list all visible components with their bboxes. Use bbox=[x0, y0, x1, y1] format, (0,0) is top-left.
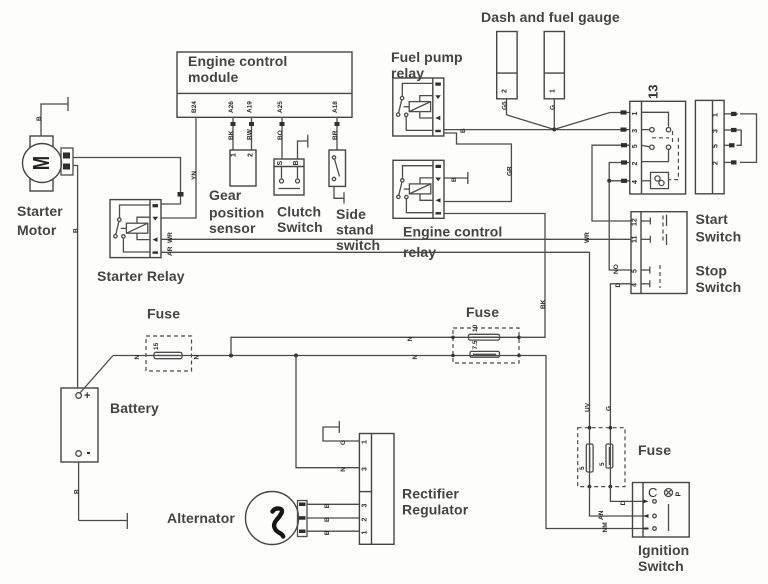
dash gauge G2 bbox=[544, 32, 564, 99]
svg-text:B: B bbox=[451, 177, 458, 182]
svg-text:Starter Relay: Starter Relay bbox=[97, 268, 185, 284]
indicator lamp inside connector 13 bbox=[642, 172, 669, 188]
svg-text:B: B bbox=[460, 128, 467, 133]
ground (engine control relay pin 2 stub) bbox=[444, 172, 468, 184]
pin label (connector pin 2 wire) bbox=[621, 128, 627, 132]
svg-text:B: B bbox=[36, 116, 43, 121]
svg-text:Engine control: Engine control bbox=[403, 224, 502, 240]
svg-text:Switch: Switch bbox=[638, 558, 684, 574]
svg-text:G5: G5 bbox=[502, 101, 509, 110]
main fuse F1 (battery fuse) bbox=[146, 336, 192, 371]
wire B (battery - down) bbox=[78, 462, 80, 521]
svg-text:1: 1 bbox=[231, 153, 238, 157]
fuse box F2/F3 bbox=[451, 324, 521, 363]
svg-text:A26: A26 bbox=[228, 101, 235, 113]
clutch switch S2 bbox=[274, 159, 304, 195]
svg-text:Engine control: Engine control bbox=[188, 53, 287, 69]
wire G6 (dash gauge down to junction) bbox=[553, 99, 555, 130]
svg-text:4: 4 bbox=[632, 283, 639, 287]
wire NM (lower fuse to ignition switch pin 3) bbox=[519, 356, 646, 529]
svg-text:B: B bbox=[293, 160, 300, 165]
svg-text:10: 10 bbox=[472, 324, 479, 332]
node (gauge wires junction) bbox=[552, 127, 556, 131]
svg-text:sensor: sensor bbox=[209, 220, 256, 236]
svg-text:A18: A18 bbox=[332, 101, 339, 113]
svg-text:BK: BK bbox=[540, 299, 547, 309]
svg-text:D: D bbox=[620, 500, 627, 505]
svg-text:BR: BR bbox=[332, 130, 339, 140]
wire B (fuel pump relay pin 4 to gauges junction and connector pin 2) bbox=[444, 129, 630, 131]
svg-text:5: 5 bbox=[599, 462, 606, 466]
svg-text:position: position bbox=[209, 205, 264, 221]
svg-text:3: 3 bbox=[713, 129, 720, 133]
wire WR (starter relay pin 3 to start switch pin 11) bbox=[161, 238, 631, 240]
ground (rectifier regulator pin 1) bbox=[323, 421, 359, 441]
svg-text:Starter: Starter bbox=[17, 203, 63, 219]
wire BW (ECM A19 to gear position sensor pin 2) bbox=[249, 117, 254, 150]
stop switch S5 contacts bbox=[641, 265, 660, 288]
svg-text:1: 1 bbox=[362, 440, 369, 444]
engine control relay K3 bbox=[393, 160, 444, 218]
wire B (starter motor to battery +) bbox=[73, 166, 78, 389]
svg-text:stand: stand bbox=[336, 222, 374, 238]
ground (battery negative) bbox=[79, 513, 128, 529]
fuel pump relay K2 bbox=[393, 78, 444, 136]
node (junction at x609) bbox=[607, 179, 611, 183]
svg-text:5: 5 bbox=[579, 466, 586, 470]
gear position sensor B1 bbox=[230, 150, 256, 186]
svg-text:B: B bbox=[324, 530, 331, 535]
svg-text:3: 3 bbox=[362, 504, 369, 508]
svg-text:Gear: Gear bbox=[209, 187, 242, 203]
svg-text:NO: NO bbox=[613, 264, 620, 274]
wire (alternator phase 2) bbox=[307, 517, 359, 519]
svg-text:Alternator: Alternator bbox=[167, 510, 235, 526]
wire (battery + to fuse wire) bbox=[80, 356, 114, 394]
svg-text:N: N bbox=[340, 467, 347, 472]
svg-text:1: 1 bbox=[362, 531, 369, 535]
svg-text:G: G bbox=[549, 105, 556, 110]
svg-text:A25: A25 bbox=[277, 101, 284, 113]
engine control module U1 bbox=[177, 52, 352, 117]
start switch S4 contacts bbox=[641, 215, 667, 246]
rectifier regulator U2 bbox=[359, 434, 394, 545]
connector (starter motor terminals) bbox=[61, 148, 73, 175]
svg-text:Side: Side bbox=[336, 206, 366, 222]
wire N (branch up to upper fuse) bbox=[231, 337, 453, 355]
svg-text:Fuel pump: Fuel pump bbox=[391, 49, 463, 65]
svg-text:N: N bbox=[412, 355, 419, 360]
svg-text:2: 2 bbox=[713, 161, 720, 165]
starter motor M1 bbox=[23, 136, 62, 191]
svg-text:3: 3 bbox=[362, 467, 369, 471]
svg-text:N: N bbox=[194, 355, 201, 360]
svg-text:2: 2 bbox=[502, 89, 509, 93]
wire N (branch down to rectifier regulator) bbox=[296, 356, 359, 468]
svg-text:Switch: Switch bbox=[696, 229, 742, 245]
svg-text:Fuse: Fuse bbox=[466, 304, 499, 320]
wire N (battery fuse feed) bbox=[113, 355, 453, 357]
svg-text:relay: relay bbox=[391, 65, 424, 81]
pin label (13 pin 3) bbox=[621, 143, 627, 147]
pin label (13 pin 4) bbox=[621, 160, 627, 164]
svg-text:3: 3 bbox=[632, 129, 639, 133]
svg-text:AN: AN bbox=[598, 510, 605, 520]
svg-text:Dash and fuel gauge: Dash and fuel gauge bbox=[481, 9, 620, 25]
wire (alternator phase 1) bbox=[307, 503, 359, 505]
ground (side stand switch) bbox=[334, 186, 344, 203]
svg-text:5: 5 bbox=[713, 144, 720, 148]
svg-text:B: B bbox=[324, 517, 331, 522]
svg-text:1: 1 bbox=[632, 112, 639, 116]
node (branch to upper fuse) bbox=[229, 354, 233, 358]
side stand switch S3 bbox=[329, 150, 346, 186]
svg-text:B: B bbox=[74, 489, 81, 494]
wire AN (left fuse to ignition switch pin 2) bbox=[590, 487, 647, 516]
svg-text:P: P bbox=[676, 492, 683, 497]
svg-text:BO: BO bbox=[277, 130, 284, 140]
svg-text:5: 5 bbox=[632, 144, 639, 148]
wire GR (fuel pump relay pin 4 to engine control relay pin 3) bbox=[444, 133, 511, 202]
svg-text:Fuse: Fuse bbox=[638, 442, 671, 458]
svg-text:module: module bbox=[188, 69, 238, 85]
svg-text:WR: WR bbox=[584, 232, 591, 243]
svg-text:12: 12 bbox=[632, 218, 639, 226]
svg-text:M: M bbox=[29, 156, 54, 170]
svg-text:Fuse: Fuse bbox=[147, 306, 180, 322]
fuse box F4/F5 (ignition fuses) bbox=[578, 426, 625, 489]
wire (connector J2 pin 2 to pin 3 bridge) bbox=[724, 128, 741, 147]
svg-text:2: 2 bbox=[362, 518, 369, 522]
svg-text:Clutch: Clutch bbox=[277, 204, 321, 220]
svg-text:G: G bbox=[605, 406, 612, 411]
svg-text:Battery: Battery bbox=[110, 400, 159, 416]
svg-text:S: S bbox=[277, 161, 284, 166]
svg-text:Motor: Motor bbox=[17, 222, 57, 238]
svg-text:B: B bbox=[324, 503, 331, 508]
connector block 13 (J13) bbox=[630, 101, 686, 194]
wire BK (ECM A26 to gear position sensor pin 1) bbox=[231, 117, 236, 150]
svg-text:13: 13 bbox=[646, 85, 661, 99]
svg-text:1: 1 bbox=[713, 113, 720, 117]
svg-text:UV: UV bbox=[585, 402, 592, 412]
svg-text:4: 4 bbox=[632, 180, 639, 184]
svg-text:NM: NM bbox=[602, 522, 609, 532]
svg-text:B: B bbox=[73, 228, 80, 233]
pin label (13 pin 5) bbox=[621, 179, 627, 183]
svg-text:GR: GR bbox=[506, 166, 513, 176]
svg-text:BW: BW bbox=[247, 128, 254, 140]
svg-text:15: 15 bbox=[153, 342, 160, 350]
svg-text:C: C bbox=[648, 485, 657, 500]
fuel gauge G1 bbox=[497, 32, 517, 99]
svg-text:AR: AR bbox=[167, 246, 174, 256]
start/stop switch block bbox=[631, 212, 687, 294]
wire (connector 13 pin 3 to start switch pin 12) bbox=[592, 145, 631, 221]
svg-text:1: 1 bbox=[550, 89, 557, 93]
svg-text:BK: BK bbox=[228, 130, 235, 140]
alternator G3 bbox=[246, 492, 299, 545]
wire BR (ECM A18 to side stand switch) bbox=[335, 117, 340, 150]
starter relay K1 bbox=[110, 200, 161, 258]
svg-text:D: D bbox=[615, 283, 622, 288]
connector block J2 bbox=[695, 100, 724, 193]
svg-text:N: N bbox=[134, 355, 141, 360]
wire D (right fuse to ignition switch pin 1) bbox=[610, 487, 646, 502]
svg-text:WR: WR bbox=[167, 232, 174, 243]
wire (starter motor to starter relay pin 1) bbox=[73, 158, 184, 205]
svg-text:11: 11 bbox=[632, 235, 639, 243]
wire (connector 13 pin 5 joins) bbox=[609, 180, 630, 182]
svg-text:2: 2 bbox=[632, 162, 639, 166]
svg-text:+: + bbox=[84, 390, 90, 402]
wire (alternator phase 3) bbox=[307, 530, 359, 532]
wire AR (starter relay pin 4 to fuse and ignition switch) bbox=[161, 252, 590, 427]
wire YN (ECM pin B24 to starter relay pin 2) bbox=[161, 117, 196, 218]
wire (connector 13 pin 4 to stop switch pin 5) bbox=[609, 163, 631, 271]
connector (alternator terminals) bbox=[298, 501, 308, 537]
ground (clutch switch) bbox=[298, 135, 308, 159]
wire (connector J2 pin 1 to pin 4 bridge) bbox=[724, 112, 756, 165]
wire BK (upper fuse to engine control relay pin 4) bbox=[444, 214, 545, 338]
svg-text:B24: B24 bbox=[191, 101, 198, 113]
svg-text:2: 2 bbox=[248, 153, 255, 157]
svg-text:relay: relay bbox=[403, 244, 436, 260]
wire BO (ECM A25 to clutch switch) bbox=[280, 117, 285, 159]
pin label (connector pin 1 wire) bbox=[621, 110, 627, 114]
svg-text:Start: Start bbox=[696, 211, 729, 227]
svg-text:YN: YN bbox=[191, 171, 198, 180]
svg-text:N: N bbox=[407, 336, 414, 341]
svg-text:Switch: Switch bbox=[277, 219, 323, 235]
svg-text:A19: A19 bbox=[247, 101, 254, 113]
wire G5 (fuel gauge to junction) bbox=[507, 99, 555, 130]
node (branch down to rectifier) bbox=[294, 354, 298, 358]
wire D (stop switch pin 4 to fuse to ignition switch) bbox=[610, 284, 631, 428]
switch contacts inside connector 13 bbox=[642, 112, 679, 179]
svg-text:G: G bbox=[340, 440, 347, 445]
ground (starter motor chassis ground) bbox=[41, 97, 68, 136]
svg-text:7.5: 7.5 bbox=[472, 340, 479, 349]
svg-text:Regulator: Regulator bbox=[402, 502, 469, 518]
svg-text:Stop: Stop bbox=[696, 263, 728, 279]
svg-text:5: 5 bbox=[632, 269, 639, 273]
battery BT1 bbox=[61, 388, 98, 462]
svg-text:Switch: Switch bbox=[696, 279, 742, 295]
svg-text:Ignition: Ignition bbox=[638, 542, 689, 558]
ignition switch S1 bbox=[633, 483, 690, 538]
wire (junction to connector pin 1) bbox=[554, 113, 630, 130]
svg-text:Rectifier: Rectifier bbox=[402, 486, 459, 502]
